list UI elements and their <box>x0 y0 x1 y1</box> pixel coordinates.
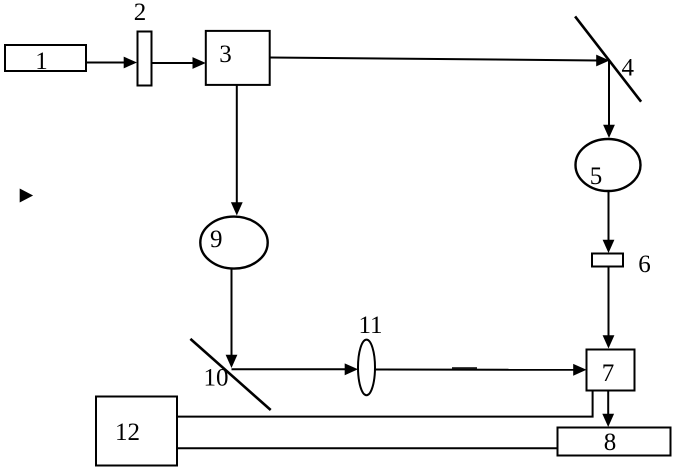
wire 5 to 6 <box>608 191 610 242</box>
arrowhead into 7 top <box>603 335 615 348</box>
box 12 <box>96 397 177 466</box>
box 3 <box>206 31 270 85</box>
arrowhead into 7 left <box>573 364 586 376</box>
svg-text:10: 10 <box>204 365 229 392</box>
mirror 4 <box>575 16 641 101</box>
svg-text:3: 3 <box>219 41 232 68</box>
wire 2 to 3 <box>152 62 195 64</box>
arrowhead into 2 <box>124 57 137 69</box>
box 8 <box>558 428 671 456</box>
arrowhead into 3 <box>193 57 206 69</box>
ellipse 9 <box>200 217 267 269</box>
wire 12 to 7 <box>178 391 593 417</box>
box 1 <box>5 45 86 71</box>
svg-text:9: 9 <box>210 226 223 253</box>
box 2 (thin filter plate) <box>138 32 152 86</box>
arrowhead into 8 <box>602 414 614 427</box>
wire 9 to 10 <box>231 269 233 357</box>
wire 3 to 4 <box>270 58 598 61</box>
box 7 <box>587 350 635 391</box>
arrowhead into 6 <box>603 240 615 253</box>
mirror 10 <box>190 339 270 410</box>
svg-text:7: 7 <box>602 360 615 387</box>
svg-text:5: 5 <box>590 163 603 190</box>
wire 1 to 2 <box>86 62 125 64</box>
svg-text:6: 6 <box>638 251 651 278</box>
wire 6 to 7 <box>608 267 610 339</box>
svg-text:8: 8 <box>604 429 617 456</box>
wire 7 to 8 <box>607 391 609 417</box>
wire 3 to 9 <box>236 85 238 204</box>
wire 12 to 8 <box>178 447 558 449</box>
svg-text:12: 12 <box>115 419 140 446</box>
lens 11 <box>358 340 375 396</box>
svg-text:4: 4 <box>621 55 634 82</box>
svg-text:11: 11 <box>358 312 382 339</box>
wire jog artifact on 11 to 7 <box>452 367 477 369</box>
pointer triangle marker <box>20 189 33 203</box>
wire 11 to 7 <box>376 369 576 371</box>
box 6 <box>592 254 623 267</box>
arrowhead into 4 <box>596 55 609 67</box>
arrowhead into 11 <box>345 363 358 375</box>
arrowhead into 10 <box>226 355 238 368</box>
wire 4 to 5 <box>608 61 610 127</box>
ellipse 5 <box>576 139 641 191</box>
arrowhead into 9 <box>231 202 243 215</box>
svg-text:2: 2 <box>134 0 147 26</box>
arrowhead into 5 <box>603 125 615 138</box>
svg-text:1: 1 <box>35 48 48 75</box>
wire 10 to 11 <box>232 368 348 370</box>
